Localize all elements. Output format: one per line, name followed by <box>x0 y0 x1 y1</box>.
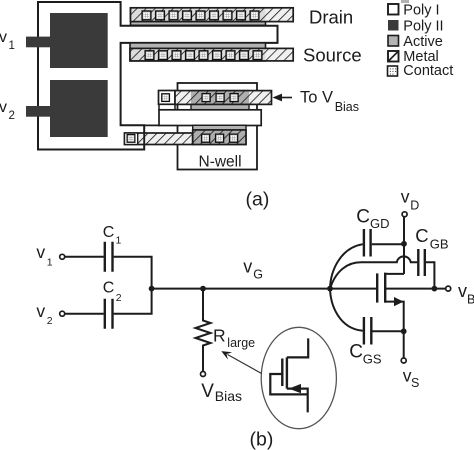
bias bar contacts <box>202 94 238 102</box>
svg-text:large: large <box>227 336 255 350</box>
svg-text:C: C <box>349 341 363 362</box>
white poly bar under bias transistor <box>159 110 261 126</box>
poly II square C2 top plate <box>50 80 108 137</box>
svg-text:2: 2 <box>9 110 15 122</box>
svg-text:C: C <box>356 207 370 228</box>
svg-text:1: 1 <box>9 40 15 52</box>
svg-text:v: v <box>458 281 467 301</box>
source contacts <box>145 51 262 60</box>
arc node to CGS <box>330 289 363 331</box>
source bar active <box>130 43 266 61</box>
legend poly I <box>388 4 399 15</box>
bar4 contacts <box>202 134 238 142</box>
svg-text:(a): (a) <box>246 189 270 211</box>
bar4 metal right <box>193 130 246 145</box>
poly I plate with gate strip and bottom extension <box>38 2 278 150</box>
connector lines contact box to white bar <box>159 104 175 110</box>
vB terminal <box>446 286 451 291</box>
svg-text:Poly I: Poly I <box>403 3 439 19</box>
bias poly contact box <box>159 91 176 105</box>
drain bar metal <box>131 8 266 22</box>
svg-text:R: R <box>213 325 226 345</box>
svg-text:v: v <box>243 257 252 277</box>
svg-text:v: v <box>36 301 45 321</box>
svg-text:G: G <box>253 268 263 282</box>
legend metal <box>388 51 399 62</box>
contact in bias contact box <box>162 94 170 102</box>
wire C2 to node <box>114 289 152 314</box>
resistor Rlarge <box>196 289 211 372</box>
inset ellipse <box>261 327 336 428</box>
VBias terminal <box>201 372 206 377</box>
bar4 active <box>193 125 246 144</box>
svg-text:GS: GS <box>363 351 382 366</box>
svg-text:S: S <box>411 376 419 390</box>
svg-text:2: 2 <box>47 315 53 327</box>
svg-text:C: C <box>415 225 428 246</box>
inset transistor source arrow <box>289 384 301 393</box>
svg-text:1: 1 <box>47 256 53 268</box>
drain bar active <box>131 8 266 25</box>
svg-text:(b): (b) <box>250 429 274 450</box>
source arrow <box>394 297 404 306</box>
junction node vG fanout <box>327 286 333 292</box>
CGB to vB wire <box>426 262 435 288</box>
junction CGB-bulk-vB <box>432 286 438 292</box>
vD terminal <box>402 212 407 217</box>
wire: plate extension to poly bar bottom edge <box>144 124 161 126</box>
legend active <box>388 36 399 47</box>
poly extension edge crossing bar4 <box>143 132 145 146</box>
wire v2 to C2 <box>65 313 104 315</box>
wire v1 to C1 <box>65 256 104 258</box>
bar4 metal left <box>125 133 193 145</box>
v2 terminal <box>60 311 65 316</box>
svg-text:1: 1 <box>116 235 122 247</box>
capacitor CGB <box>418 249 425 276</box>
MOSFET gate bar <box>376 273 378 302</box>
svg-text:Bias: Bias <box>215 388 242 404</box>
CGD to drain wire <box>372 243 404 245</box>
arc node to CGB with hop <box>330 256 417 288</box>
junction CGS-source <box>401 328 407 334</box>
svg-text:2: 2 <box>116 292 122 304</box>
svg-text:C: C <box>103 224 115 241</box>
v1 terminal <box>60 254 65 259</box>
poly II square C1 top plate <box>50 13 108 68</box>
source lead <box>385 302 404 359</box>
To VBias arrow <box>273 94 283 102</box>
bulk wire to vB <box>385 288 446 290</box>
transistor (diode-connected MOSFET) in inset <box>270 338 308 412</box>
bar4 left contact <box>127 135 135 143</box>
drain lead <box>385 273 404 275</box>
arc node to CGD <box>330 244 363 288</box>
source bar metal <box>130 48 266 61</box>
svg-text:Active: Active <box>403 34 443 50</box>
svg-text:Source: Source <box>303 45 362 66</box>
svg-text:GD: GD <box>370 216 390 231</box>
vS terminal <box>401 358 406 363</box>
svg-text:GB: GB <box>430 237 449 252</box>
svg-text:V: V <box>201 381 214 402</box>
drain vertical <box>403 217 405 274</box>
svg-text:Drain: Drain <box>309 7 353 28</box>
v1 lead <box>26 37 52 48</box>
wire C1 to node <box>114 257 152 289</box>
svg-text:N-well: N-well <box>199 154 242 171</box>
svg-text:Bias: Bias <box>335 100 359 114</box>
svg-text:v: v <box>36 242 45 262</box>
capacitor CGS <box>364 317 371 345</box>
svg-text:D: D <box>410 199 419 213</box>
svg-text:C: C <box>103 279 115 296</box>
capacitor C1 <box>105 242 113 272</box>
CGS to source wire <box>372 330 403 332</box>
svg-text:v: v <box>401 186 410 206</box>
drain contacts <box>142 11 259 20</box>
N-well box <box>178 83 258 170</box>
capacitor C2 <box>105 299 113 329</box>
legend poly II <box>388 20 399 31</box>
bias gate bar metal <box>175 91 191 105</box>
junction Rlarge branch <box>200 286 206 292</box>
svg-text:Contact: Contact <box>403 63 453 79</box>
svg-text:v: v <box>0 29 7 46</box>
svg-text:Poly II: Poly II <box>403 19 443 35</box>
bias bar active <box>191 91 249 111</box>
legend contact <box>388 66 398 76</box>
v2 lead <box>26 106 52 117</box>
main gate wire <box>152 288 378 290</box>
junction CGD-drain <box>401 241 407 247</box>
MOSFET channel bar <box>384 273 386 303</box>
svg-text:B: B <box>467 293 474 307</box>
junction C1-C2 join <box>149 286 155 292</box>
pointer arrowhead <box>221 351 232 360</box>
svg-text:To V: To V <box>300 89 333 107</box>
legend gray blob top <box>401 0 409 3</box>
capacitor CGD <box>364 229 371 257</box>
svg-text:v: v <box>0 99 7 116</box>
bar4 left contact box <box>125 133 138 145</box>
pointer line ellipse to Rlarge <box>228 355 262 374</box>
